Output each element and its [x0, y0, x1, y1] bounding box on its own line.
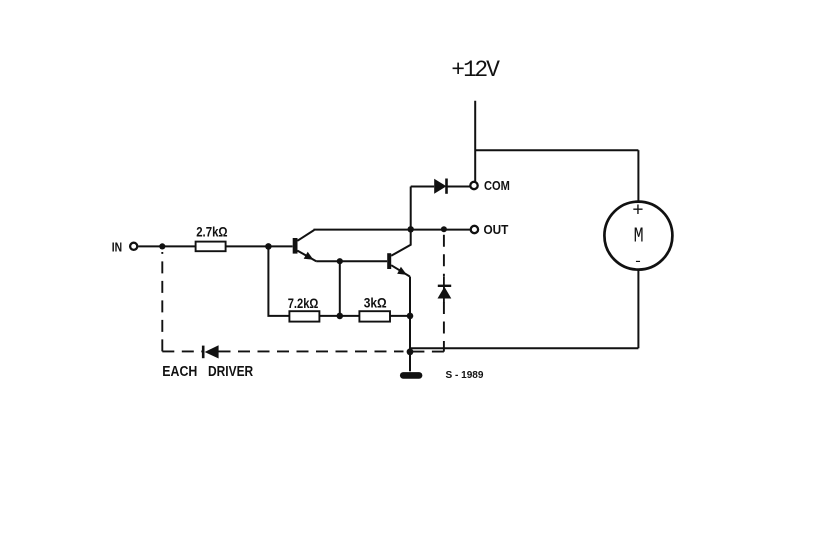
svg-text:EACHDRIVER: EACHDRIVER [162, 364, 253, 380]
svg-text:COM: COM [484, 178, 510, 193]
svg-text:+: + [632, 199, 643, 221]
svg-text:3kΩ: 3kΩ [364, 296, 387, 311]
svg-text:7.2kΩ: 7.2kΩ [288, 296, 319, 311]
svg-text:M: M [634, 225, 644, 248]
svg-text:2.7kΩ: 2.7kΩ [196, 225, 228, 240]
svg-text:IN: IN [112, 240, 122, 255]
svg-text:OUT: OUT [484, 222, 509, 237]
svg-text:-: - [633, 254, 642, 271]
svg-text:S - 1989: S - 1989 [446, 370, 484, 381]
svg-text:V: V [486, 57, 500, 83]
